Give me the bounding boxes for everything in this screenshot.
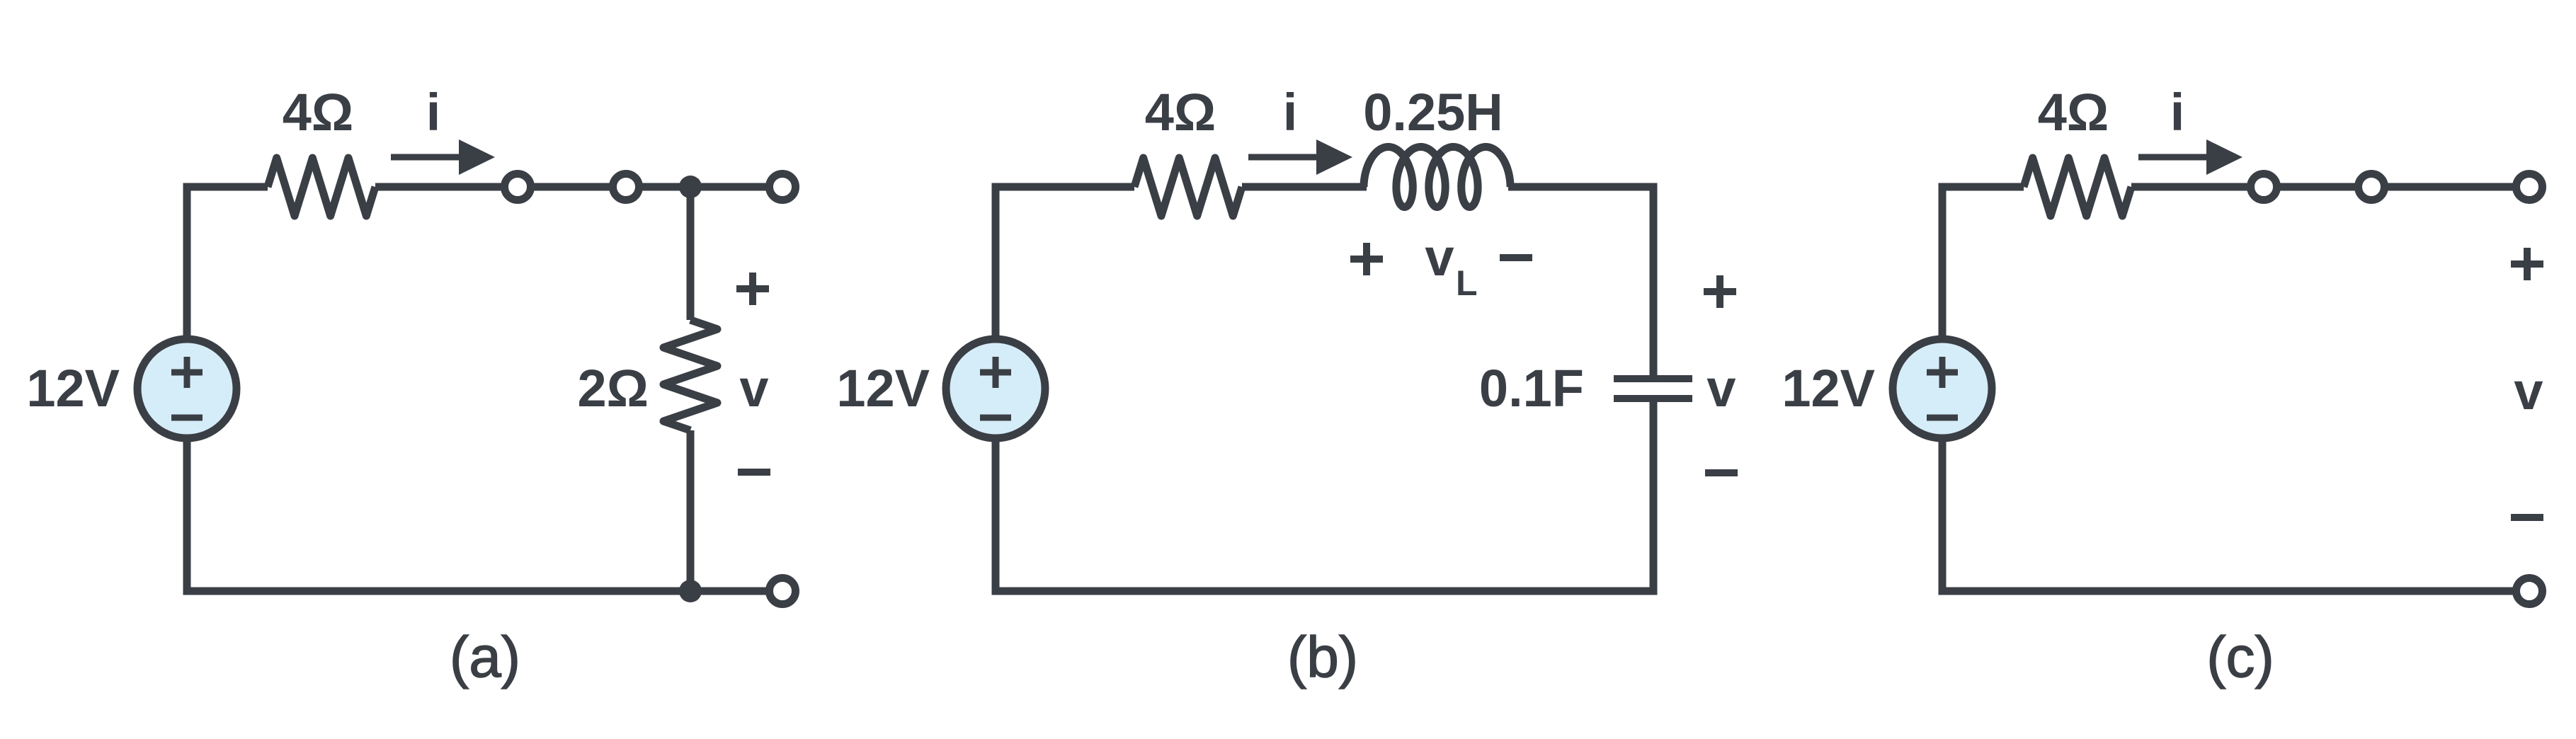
wire: (c) top wire left segment [1939, 183, 2024, 191]
open terminal (c) top wire switch circle 1 [2251, 174, 2277, 200]
wire: (b) left vertical bottom [992, 438, 1000, 595]
resistor R 4ohm (b) zigzag [1134, 158, 1242, 216]
wire: (a) top wire left segment [183, 183, 268, 191]
circuit (c) [1782, 83, 2543, 689]
svg-text:L: L [1456, 263, 1478, 303]
voltage source V 12V (a) [137, 339, 236, 438]
label minus of vL (b) [1500, 254, 1532, 261]
open terminal (c) top wire switch circle 2 [2359, 174, 2385, 200]
voltage source V 12V (b) [946, 339, 1045, 438]
svg-text:i: i [426, 83, 441, 142]
label plus of v (b) [1704, 275, 1736, 308]
wire: (a) top wire from resistor to right terminal [375, 183, 782, 191]
circuit (b) [836, 83, 1738, 689]
node junction dot (a) top [679, 176, 702, 198]
resistor R 4ohm (c) zigzag [2024, 158, 2131, 216]
svg-text:12V: 12V [836, 359, 930, 418]
label plus of v (c) [2511, 248, 2543, 280]
label minus of v (a) [738, 469, 770, 476]
svg-text:12V: 12V [26, 359, 120, 418]
svg-text:2Ω: 2Ω [578, 359, 649, 418]
svg-text:4Ω: 4Ω [283, 83, 354, 142]
wire: (a) right branch vertical above 2ohm [687, 187, 695, 320]
wire: (c) left vertical top [1939, 183, 1947, 340]
open terminal (a) top wire switch circle 1 [505, 174, 531, 200]
svg-text:(b): (b) [1287, 625, 1358, 689]
label minus of v (c) [2511, 514, 2543, 521]
svg-text:(a): (a) [450, 625, 520, 689]
open terminal (a) top right [770, 174, 796, 200]
node junction dot (a) bottom [679, 580, 702, 602]
open terminal (a) top wire switch circle 2 [613, 174, 639, 200]
wire: (b) left vertical top [992, 183, 1000, 340]
svg-text:4Ω: 4Ω [1145, 83, 1216, 142]
label minus of v (b) [1705, 469, 1738, 476]
open terminal (c) top right [2517, 174, 2543, 200]
svg-text:v: v [2514, 362, 2543, 420]
inductor L 0.25H (b) coil [1364, 147, 1510, 207]
wire: (b) between resistor and inductor [1242, 183, 1367, 191]
wire: (b) top wire left segment [992, 183, 1135, 191]
resistor R 2ohm (a) vertical zigzag [663, 320, 717, 430]
wire: (a) right branch vertical below 2ohm [687, 430, 695, 591]
current arrow i (b) [1248, 154, 1321, 161]
wire: (c) top wire from resistor to right terminal [2131, 183, 2529, 191]
wire: (b) bottom wire [992, 588, 1658, 595]
current arrow i (c) [2138, 154, 2211, 161]
svg-text:i: i [1283, 83, 1298, 142]
wire: (a) bottom wire [183, 588, 783, 595]
wire: (a) source bottom to bottom-left corner [183, 438, 191, 595]
wire: (c) left vertical bottom [1939, 438, 1947, 595]
wire: (a) left vertical from top-left corner to source top [183, 183, 191, 340]
capacitor C 0.1F (b) plates [1614, 379, 1692, 399]
svg-text:0.1F: 0.1F [1479, 359, 1584, 418]
resistor R 4ohm (a) zigzag [268, 158, 375, 216]
wire: (b) inductor to top-right corner and down to capacitor [1508, 187, 1653, 375]
label plus of v (a) [736, 273, 769, 305]
svg-text:v: v [739, 359, 768, 418]
svg-text:4Ω: 4Ω [2038, 83, 2109, 142]
label plus of vL (b) [1350, 243, 1383, 275]
svg-text:0.25H: 0.25H [1363, 83, 1503, 142]
current arrow i (a) [391, 154, 463, 161]
circuit (a) [26, 83, 795, 689]
open terminal (a) bottom right [770, 578, 796, 605]
svg-text:12V: 12V [1782, 359, 1875, 418]
svg-text:(c): (c) [2206, 625, 2274, 689]
wire: (b) below capacitor to bottom-right corner [1650, 402, 1658, 591]
voltage source V 12V (c) [1893, 339, 1992, 438]
svg-text:v: v [1706, 359, 1736, 418]
open terminal (c) bottom right [2517, 578, 2543, 605]
wire: (c) bottom wire [1939, 588, 2530, 595]
svg-text:i: i [2170, 83, 2185, 142]
svg-text:v: v [1425, 228, 1454, 287]
